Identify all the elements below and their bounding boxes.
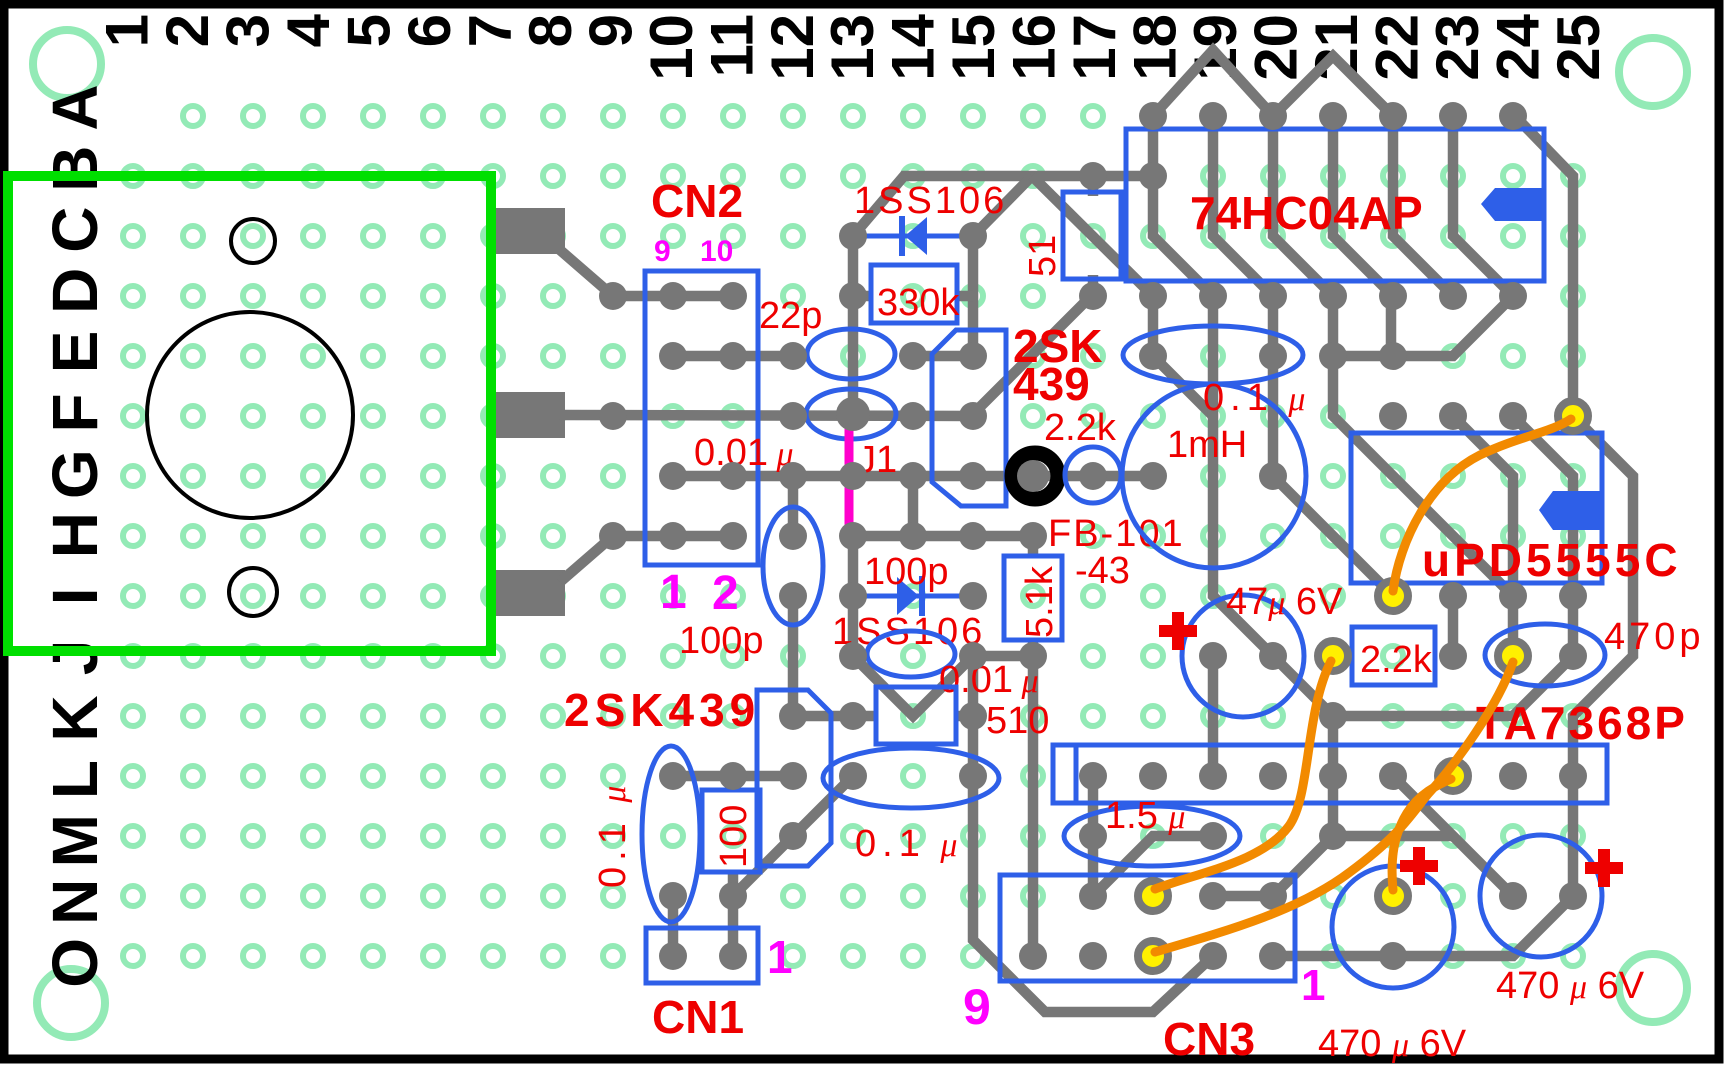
wire row E E10-E12 [673, 351, 793, 362]
diode 1SS106 #2 (I13-I15) [853, 576, 973, 616]
wire F23 to G24 to J24 [1453, 416, 1513, 656]
svg-text:10: 10 [700, 235, 733, 268]
wire row G G10-G18 [673, 471, 1153, 482]
svg-text:470 μ 6V: 470 μ 6V [1318, 1023, 1467, 1065]
svg-text:13: 13 [819, 14, 886, 81]
solder point F25 [1558, 401, 1588, 431]
wire A18 zigzag A20 [1153, 50, 1273, 116]
svg-text:24: 24 [1484, 13, 1551, 80]
wire D21-F21, long diagonal to I24 [1333, 296, 1513, 596]
svg-text:E: E [39, 331, 111, 374]
wire M21 to N20 diagonal [1273, 836, 1333, 896]
wire row B net: C13 to B17-B18, branch to C15 and D18 [853, 176, 1153, 236]
wire F25 jog col26 down to K25,N25, to O24-O20 [1273, 416, 1633, 956]
capacitor 0.1u (E18-E20) [1123, 326, 1303, 384]
svg-text:8: 8 [517, 14, 584, 47]
svg-text:2SK439: 2SK439 [564, 684, 760, 736]
pad P1 (antenna) [496, 208, 565, 254]
wire J21 stub to 2.2k [1333, 651, 1354, 662]
svg-text:CN1: CN1 [652, 991, 744, 1043]
solder point N18 [1138, 881, 1168, 911]
svg-text:F: F [39, 393, 111, 432]
wire D22-E22 [1386, 296, 1397, 356]
svg-text:330k: 330k [877, 282, 960, 324]
solder point L23 [1438, 761, 1468, 791]
capacitor 0.01u #2 (J14) [867, 631, 955, 677]
wire pad P1 to D9-D11 [560, 250, 733, 296]
solder point J24 [1498, 641, 1528, 671]
pad P3 [496, 570, 565, 616]
IC uPD5555C outline [1351, 433, 1602, 583]
svg-text:2.2k: 2.2k [1044, 407, 1117, 449]
column labels 1-25 [94, 13, 1612, 80]
jumper wire N18 to J21 [1155, 661, 1331, 889]
wire A23 to D24 through 74HC04AP [1453, 116, 1513, 296]
wire N11-O11 [728, 896, 739, 956]
jumper J1 (F13-H13) [845, 420, 854, 532]
IC TA7368P outline [1053, 745, 1607, 803]
connector CN3 outline [1000, 875, 1295, 981]
capacitor 0.1u #2 (L13-L15) [823, 748, 999, 808]
svg-text:I: I [39, 587, 111, 605]
svg-text:0.1 μ: 0.1 μ [855, 823, 963, 865]
svg-text:1: 1 [94, 14, 161, 47]
svg-text:6: 6 [396, 14, 463, 47]
svg-text:-43: -43 [1075, 550, 1130, 592]
svg-text:18: 18 [1122, 14, 1189, 81]
wire J13-K14-J15 vee [853, 656, 973, 716]
transistor Q1 2SK439 outline [932, 330, 1006, 506]
svg-text:D: D [39, 268, 111, 314]
wire row L L10-L12 [673, 771, 793, 782]
svg-text:22: 22 [1364, 14, 1431, 81]
svg-text:23: 23 [1424, 14, 1491, 81]
wire G12-H12 [788, 476, 799, 536]
svg-text:22p: 22p [759, 295, 822, 337]
svg-text:20: 20 [1243, 14, 1310, 81]
wire F24 to G25 to J25 [1513, 416, 1573, 656]
svg-text:25: 25 [1545, 14, 1612, 81]
svg-text:1: 1 [1301, 961, 1325, 1010]
svg-text:17: 17 [1061, 14, 1128, 81]
svg-text:1: 1 [660, 566, 687, 619]
resistor 330k (D13-D15) [871, 265, 957, 323]
pad P2 [496, 392, 565, 438]
capacitor 470u 6V #2 (N24-N25) [1480, 835, 1602, 957]
resistor 510 (K13-K15) [876, 687, 956, 744]
svg-text:2: 2 [712, 567, 739, 620]
svg-text:O: O [39, 938, 111, 988]
resistor 51 (B17-D17) [1063, 192, 1121, 279]
svg-text:14: 14 [880, 13, 947, 80]
svg-text:439: 439 [1013, 358, 1090, 410]
wire A18 to D19 through 74HC04AP [1153, 116, 1213, 296]
capacitor 22p (E12-E14) [807, 329, 895, 379]
svg-text:4: 4 [275, 13, 342, 47]
capacitor 0.1u #3 (L10-N10) [642, 746, 700, 922]
wire row E E14-E15 [913, 351, 973, 362]
svg-text:74HC04AP: 74HC04AP [1190, 187, 1423, 239]
resistor 100 (L11-N11) [702, 790, 760, 872]
wire A24 to B25 to F25 (col 25) [1513, 114, 1573, 416]
diode 1SS106 (C13-C15) [853, 216, 973, 256]
wire N10-O10 [668, 896, 679, 956]
svg-text:1SS106: 1SS106 [854, 180, 1007, 222]
svg-text:470 μ 6V: 470 μ 6V [1496, 965, 1645, 1007]
jumper wire N22 to L23 [1392, 779, 1451, 890]
wire L17-N17 (col 17) [1088, 776, 1099, 896]
svg-text:5.1k: 5.1k [1019, 565, 1061, 638]
ferrite bead FB-101-43 (black ring at G16) [1012, 453, 1058, 499]
mounting hole top-right [1619, 38, 1687, 106]
wire 330k stubs D13-D15 [853, 291, 871, 302]
inductor 1mH [1122, 384, 1306, 568]
svg-text:CN3: CN3 [1163, 1013, 1255, 1065]
wire I12-K12 [788, 596, 799, 716]
svg-text:3: 3 [215, 14, 282, 47]
svg-text:0.1 μ: 0.1 μ [1203, 377, 1311, 419]
svg-text:7: 7 [456, 14, 523, 47]
svg-text:1mH: 1mH [1167, 424, 1247, 466]
wire J16-O16 (col 16) [1028, 656, 1039, 956]
capacitor 470u 6V #1 (N22-O22) [1332, 866, 1454, 988]
tuner module outline [8, 176, 491, 651]
wire row E E21-E23 bend to D24 [1333, 296, 1513, 356]
svg-text:9: 9 [577, 14, 644, 47]
svg-text:47μ 6V: 47μ 6V [1226, 581, 1343, 623]
wire D17 to F15 diagonal [973, 296, 1091, 414]
svg-text:510: 510 [986, 700, 1049, 742]
resistor 5.1k (H16-J16) [1004, 556, 1062, 640]
wire 510 stubs K13-K15 [853, 711, 876, 722]
solder point N22 [1378, 881, 1408, 911]
svg-text:51: 51 [1022, 235, 1064, 277]
wire A19 to D20 through 74HC04AP [1213, 116, 1273, 296]
svg-text:100: 100 [713, 805, 755, 868]
svg-text:M: M [39, 814, 111, 867]
svg-text:9: 9 [963, 979, 991, 1035]
mounting hole bottom-left [37, 969, 105, 1037]
wire M19-M18 to N17 [1093, 836, 1213, 896]
wire 51 resistor stubs B17-D17 [1088, 176, 1099, 196]
svg-text:L: L [39, 760, 111, 799]
jumper wire I22 to F25 [1393, 419, 1571, 591]
svg-text:1.5 μ: 1.5 μ [1105, 795, 1185, 837]
svg-text:uPD5555C: uPD5555C [1422, 534, 1682, 586]
svg-text:1: 1 [767, 931, 793, 983]
svg-text:H: H [39, 512, 111, 558]
wire K12-K13 [793, 711, 853, 722]
wire L13 to N11 diagonal [733, 776, 853, 896]
wire A20 zigzag A22 [1273, 56, 1393, 116]
plus mark 470u #2 [1585, 849, 1623, 887]
wire J25 to K24, row K to K21 [1333, 656, 1573, 716]
svg-text:100p: 100p [679, 620, 764, 662]
wire J15-L15 down col15 loop to O19 [973, 656, 1213, 1012]
transistor Q2 2SK439 outline [757, 690, 831, 866]
wire N19-N20 [1213, 891, 1273, 902]
solder point I22 [1378, 581, 1408, 611]
connector CN2 outline [645, 271, 758, 565]
wire H13-J13 (col 13) [848, 536, 859, 656]
wire J15-J16 [973, 651, 1033, 662]
capacitor 0.01u (F12-F14) [806, 389, 896, 439]
svg-text:CN2: CN2 [651, 175, 743, 227]
svg-text:N: N [39, 879, 111, 925]
plus mark 47u [1159, 612, 1197, 650]
svg-text:11: 11 [698, 14, 765, 77]
capacitor 100p (H12-I12) [763, 507, 823, 625]
svg-text:12: 12 [759, 14, 826, 81]
solder point O18 [1138, 941, 1168, 971]
capacitor 470p (J24-J25) [1485, 624, 1605, 686]
svg-text:15: 15 [940, 14, 1007, 81]
svg-text:10: 10 [638, 14, 705, 81]
mounting hole bottom-right [1619, 954, 1687, 1022]
svg-text:5: 5 [336, 14, 403, 47]
svg-text:2: 2 [154, 14, 221, 47]
connector CN1 outline [646, 928, 758, 983]
mounting hole top-left [33, 30, 101, 98]
capacitor 47u 6V (J19-J20) [1182, 595, 1304, 717]
wire D18-E18, diagonal to F19, col19 down to I19, to K21, to M21, M23 [1148, 296, 1159, 356]
svg-text:A: A [39, 84, 111, 130]
resistor 2.2k #2 (J21) [1352, 627, 1435, 685]
capacitor 1.5u (M17-M19) [1064, 806, 1240, 866]
svg-text:0.1 μ: 0.1 μ [592, 780, 634, 888]
row labels A-O [39, 84, 111, 987]
wire L22 to N24 diagonal [1393, 776, 1513, 896]
svg-text:G: G [39, 449, 111, 499]
wire J19-L19 [1208, 656, 1219, 776]
svg-text:B: B [39, 145, 111, 191]
svg-text:K: K [39, 695, 111, 741]
wire C13-F13 vertical (col 13) [848, 236, 859, 416]
IC 74HC04AP outline [1126, 129, 1544, 281]
wire D20-G20, diagonal G20 to I22 [1273, 296, 1393, 596]
svg-text:2.2k: 2.2k [1360, 639, 1433, 681]
svg-text:FB-101: FB-101 [1048, 513, 1185, 555]
wire G14-H14 [908, 476, 919, 536]
wire pad P2 row F to F15 [560, 415, 973, 416]
jumper wire O18 to J24 [1155, 662, 1513, 952]
wire A21 to D22 through 74HC04AP [1333, 116, 1393, 296]
svg-text:470p: 470p [1604, 616, 1705, 658]
wire pad P3 to H9-H11 [560, 536, 733, 582]
resistor 2.2k (G17-G18) [1065, 447, 1121, 503]
svg-text:J: J [39, 640, 111, 676]
wire I23-J23 [1448, 596, 1459, 656]
wire A22 to D23 through 74HC04AP [1393, 116, 1453, 296]
wire row H H13-H16 [853, 531, 1033, 542]
svg-text:TA7368P: TA7368P [1476, 697, 1688, 749]
plus mark 470u #1 [1400, 847, 1438, 885]
svg-text:C: C [39, 207, 111, 253]
svg-text:9: 9 [654, 235, 671, 268]
wire 100 resistor stubs L11-N11 [728, 776, 739, 792]
svg-text:100p: 100p [864, 551, 949, 593]
wire A20 to D21 through 74HC04AP [1273, 116, 1333, 296]
svg-text:16: 16 [1001, 14, 1068, 81]
wire C15-E15 vertical [968, 238, 979, 356]
solder point J21 [1318, 641, 1348, 671]
wire 5.1k stubs H16-J16 [1028, 536, 1039, 558]
